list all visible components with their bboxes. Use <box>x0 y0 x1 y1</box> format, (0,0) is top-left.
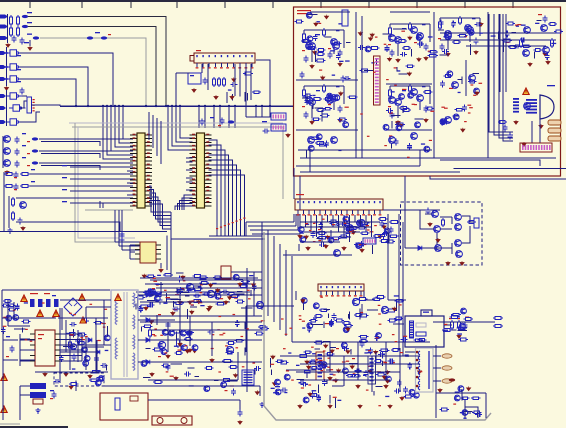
capacitor C4 <box>15 137 20 144</box>
capacitor C5 <box>15 149 20 156</box>
value label <box>81 337 84 338</box>
value label <box>271 388 275 389</box>
value label <box>473 95 476 96</box>
ground <box>321 76 325 80</box>
resistor R108 <box>77 333 87 336</box>
wire <box>363 291 365 298</box>
wire <box>439 18 441 22</box>
capacitor C81 <box>238 410 243 417</box>
resistor R50 <box>548 23 557 26</box>
wire <box>213 106 215 128</box>
ground <box>387 57 391 61</box>
wire <box>78 127 135 238</box>
value label <box>248 298 251 299</box>
ground <box>214 95 218 99</box>
wire <box>146 347 151 349</box>
transistor Q59 <box>455 240 462 247</box>
capacitor C45 <box>311 231 316 238</box>
transistor Q94 <box>461 308 467 314</box>
value label <box>252 363 255 364</box>
transistor Q10 <box>417 33 424 40</box>
value label <box>62 177 67 178</box>
wire <box>121 210 123 250</box>
transistor Q122 <box>383 124 389 130</box>
wire <box>420 210 434 229</box>
capacitor C17 <box>304 56 309 63</box>
capacitor C128 <box>417 41 424 46</box>
wire <box>60 333 82 335</box>
wire <box>170 212 172 239</box>
bridge rectifier D11 <box>64 298 82 316</box>
capacitor C77 <box>138 306 143 313</box>
resistor R102 <box>177 338 180 348</box>
resistor R24 <box>402 47 411 50</box>
value label <box>14 189 17 190</box>
value label <box>200 305 204 306</box>
wire <box>104 385 260 387</box>
wire <box>388 299 406 301</box>
transistor Q27 <box>327 97 334 104</box>
wire <box>2 136 4 168</box>
value label <box>273 392 276 393</box>
wire <box>402 222 404 356</box>
wire <box>349 362 357 364</box>
wire <box>60 338 82 340</box>
wire <box>160 282 162 294</box>
wire <box>375 352 377 363</box>
wire <box>186 181 193 183</box>
resistor R87 <box>205 367 214 370</box>
diode D16 <box>146 338 150 342</box>
wire <box>388 35 394 37</box>
transistor Q93 <box>381 306 388 313</box>
wire <box>439 54 448 56</box>
ground <box>528 62 532 66</box>
wire <box>185 295 189 297</box>
value label <box>305 223 308 224</box>
ground <box>190 310 194 314</box>
wire <box>246 93 248 101</box>
wire <box>60 360 82 362</box>
transistor Q44 <box>543 47 550 54</box>
wire <box>60 355 82 357</box>
wire <box>245 222 247 236</box>
value label <box>299 315 302 316</box>
wire <box>388 97 394 99</box>
wire <box>63 345 75 347</box>
wire <box>295 214 297 226</box>
wire <box>160 263 162 268</box>
value label <box>394 295 399 296</box>
wire <box>451 243 453 254</box>
capacitor C61 <box>235 320 240 327</box>
transistor Q7 <box>309 99 316 106</box>
buffer gate U2 <box>6 64 23 70</box>
wire <box>152 115 154 148</box>
capacitor C2 <box>20 38 25 45</box>
resistor R82 <box>136 296 146 299</box>
capacitor C6 <box>15 161 20 168</box>
wire <box>214 380 219 382</box>
resistor R2 <box>17 15 20 26</box>
inductor L2 <box>22 25 28 28</box>
diode D15 <box>146 318 150 322</box>
capacitor C107 <box>310 391 315 398</box>
value label <box>319 23 322 24</box>
capacitor C26 <box>474 38 479 45</box>
value label <box>371 62 374 63</box>
value label <box>401 31 405 32</box>
capacitor C13 <box>231 82 238 87</box>
capacitor C35 <box>545 53 550 60</box>
transistor Q95 <box>459 323 465 329</box>
transistor Q46 <box>298 227 304 233</box>
resistor R196 <box>316 49 325 52</box>
resistor R91 <box>153 381 163 384</box>
wire <box>402 106 404 114</box>
resistor R18 <box>316 53 325 56</box>
ground <box>416 385 419 388</box>
wire <box>60 344 111 346</box>
wire <box>130 244 135 246</box>
wire <box>373 391 375 395</box>
value label <box>309 230 312 231</box>
capacitor C85 <box>329 319 334 326</box>
wire <box>385 342 387 380</box>
wire <box>364 69 373 71</box>
wire <box>149 295 154 297</box>
value label <box>3 326 7 327</box>
value label <box>236 347 239 348</box>
value label <box>198 286 202 287</box>
wire <box>20 67 88 106</box>
value label <box>296 365 300 366</box>
wire <box>462 226 470 243</box>
wire <box>461 77 463 84</box>
value label <box>152 288 155 289</box>
resistor R139 <box>458 320 461 330</box>
value label <box>281 318 284 319</box>
wire <box>489 14 513 132</box>
value label <box>96 370 101 371</box>
value label <box>285 334 288 335</box>
capacitor C70 <box>70 322 77 327</box>
resistor R83 <box>228 366 238 369</box>
wire <box>175 329 230 331</box>
resistor R203 <box>425 107 434 110</box>
resistor R46 <box>498 121 507 124</box>
inductor L3 <box>33 36 39 39</box>
value label <box>262 121 267 122</box>
resistor R21 <box>316 109 325 112</box>
diode D17 <box>146 360 150 364</box>
value label <box>428 36 433 37</box>
resistor R69 <box>199 282 209 285</box>
wire junction <box>179 105 181 107</box>
wire <box>512 1 514 8</box>
capacitor C93 <box>407 362 412 369</box>
value label <box>516 26 519 27</box>
ground <box>227 295 231 299</box>
resistor R1 <box>10 15 13 26</box>
ground <box>336 368 340 372</box>
capacitor C49 <box>382 231 389 236</box>
wire <box>70 166 133 168</box>
wire <box>209 165 237 236</box>
resistor R58 <box>373 235 383 238</box>
wire <box>452 329 456 331</box>
transistor Q112 <box>300 237 306 243</box>
wire <box>531 121 533 143</box>
wire <box>433 380 441 382</box>
wire <box>317 385 319 393</box>
wire <box>405 351 416 353</box>
resistor R3 <box>10 26 13 37</box>
value label <box>403 336 407 337</box>
resistor R22 <box>389 26 392 36</box>
value label <box>334 239 337 240</box>
transistor Q36 <box>445 33 452 40</box>
wire <box>231 271 262 273</box>
ground <box>474 50 478 54</box>
wire <box>186 157 193 159</box>
connector CN13 <box>474 218 479 228</box>
connector CN18 <box>368 356 376 384</box>
ground <box>368 36 372 40</box>
value label <box>352 229 355 230</box>
transistor Q110 <box>321 362 327 368</box>
wire <box>118 210 120 246</box>
resistor R75 <box>193 275 203 278</box>
wire <box>464 1 466 8</box>
resistor R160 <box>314 341 324 344</box>
value label <box>316 90 320 91</box>
ground <box>233 373 237 377</box>
wire <box>286 369 316 371</box>
wire <box>58 317 108 319</box>
resistor R45 <box>315 142 325 145</box>
ground <box>338 62 342 66</box>
wire <box>239 400 241 410</box>
value label <box>328 48 331 49</box>
capacitor C67 <box>1 327 6 334</box>
resistor R163 <box>461 397 470 400</box>
value label <box>384 362 387 363</box>
wire <box>167 322 169 352</box>
resistor R72 <box>241 280 250 283</box>
connector CN11 <box>295 199 383 216</box>
wire <box>35 371 108 373</box>
capacitor C38 <box>407 143 412 150</box>
wire <box>1 290 3 330</box>
capacitor C21 <box>390 50 395 57</box>
resistor R63 <box>386 240 395 243</box>
resistor R29 <box>459 16 462 25</box>
value label <box>333 374 336 375</box>
ground <box>188 300 192 304</box>
wire <box>361 16 363 158</box>
wire <box>184 195 193 210</box>
capacitor C123 <box>340 76 345 83</box>
transistor Q99 <box>413 392 419 398</box>
capacitor C10 <box>120 232 125 239</box>
value label <box>330 374 334 375</box>
resistor R88 <box>258 325 267 328</box>
ground <box>305 360 309 364</box>
ground <box>392 307 396 311</box>
wire <box>237 291 243 293</box>
wire <box>228 106 230 128</box>
value label <box>453 404 456 405</box>
wire <box>326 380 328 384</box>
wire <box>390 85 430 87</box>
capacitor C25 <box>440 44 445 51</box>
ground <box>446 261 450 265</box>
wire <box>393 323 404 325</box>
transistor Q35 <box>411 133 418 140</box>
capacitor C30 <box>442 120 449 125</box>
resistor R173 <box>374 360 383 363</box>
value label <box>383 362 386 363</box>
transistor Q86 <box>95 380 101 386</box>
value label <box>405 354 409 355</box>
wire <box>176 72 190 74</box>
capacitor C130 <box>451 21 456 28</box>
value label <box>38 338 42 339</box>
wire <box>239 64 241 96</box>
wire <box>60 351 96 353</box>
wire <box>7 14 9 43</box>
wire <box>8 325 30 327</box>
value label <box>163 303 167 304</box>
wire <box>6 47 8 86</box>
transistor Q17 <box>447 71 453 77</box>
ground <box>368 369 372 373</box>
value label <box>392 362 395 363</box>
resistor R155 <box>403 395 412 398</box>
resistor R17 <box>323 28 326 37</box>
transistor Q105 <box>458 386 464 392</box>
wire <box>310 11 350 13</box>
value label <box>405 356 409 357</box>
IC U14 <box>421 310 432 316</box>
transistor Q81 <box>83 360 89 366</box>
wire <box>396 300 398 311</box>
value label <box>33 102 35 103</box>
value label <box>154 335 157 336</box>
ground <box>197 299 201 303</box>
transistor Q50 <box>356 243 362 249</box>
sub-board outline BOX1 <box>294 7 561 176</box>
wire <box>20 349 35 351</box>
value label <box>289 328 292 329</box>
value label <box>471 84 474 85</box>
value label <box>275 386 280 387</box>
wire <box>0 423 20 425</box>
resistor R132 <box>387 319 397 322</box>
wire <box>16 197 133 199</box>
capacitor C89 <box>463 323 468 330</box>
wire <box>246 305 294 307</box>
transformer T3 <box>416 348 434 392</box>
warning symbol <box>79 294 85 301</box>
inductor L12 <box>442 379 452 383</box>
buffer gate U5 <box>9 105 26 111</box>
capacitor C72 <box>94 356 99 363</box>
resistor R76 <box>146 275 156 278</box>
wire <box>339 236 351 238</box>
wire junction <box>5 52 7 54</box>
wire <box>503 14 513 141</box>
value label <box>430 111 434 112</box>
value label <box>27 12 32 13</box>
posistor RT1 <box>100 393 148 420</box>
value label <box>31 169 35 170</box>
transistor Q4 <box>20 202 27 209</box>
wire <box>226 92 228 103</box>
wire <box>20 360 30 362</box>
resistor R129 <box>335 319 345 322</box>
wire <box>96 340 98 370</box>
value label <box>27 34 32 35</box>
capacitor C79 <box>148 303 155 308</box>
wire <box>172 106 193 146</box>
value label <box>423 312 429 313</box>
value label <box>521 25 526 26</box>
resistor R23 <box>409 22 412 31</box>
value label <box>316 359 319 360</box>
wire junction <box>261 105 263 107</box>
value label <box>359 244 362 245</box>
value label <box>302 327 305 328</box>
resistor R56 <box>345 228 355 231</box>
transistor Q78 <box>13 315 19 321</box>
ground <box>310 64 314 68</box>
wire <box>129 245 131 259</box>
wire <box>259 386 261 396</box>
transistor Q79 <box>6 315 12 321</box>
value label <box>384 44 387 45</box>
value label <box>420 371 423 372</box>
ground <box>255 390 259 394</box>
warning symbol <box>53 310 59 317</box>
wire <box>186 189 193 191</box>
transistor Q102 <box>376 333 382 339</box>
value label <box>378 305 381 306</box>
wire junction <box>122 105 124 107</box>
ground <box>417 369 421 373</box>
wire <box>271 369 273 375</box>
wire <box>303 30 305 34</box>
transistor Q26 <box>306 97 313 104</box>
ground <box>514 120 518 124</box>
wire <box>386 129 432 131</box>
wire <box>465 60 467 96</box>
value label <box>337 400 341 401</box>
resistor R79 <box>192 300 202 303</box>
wire <box>397 106 399 118</box>
capacitor C58 <box>184 372 191 377</box>
wire <box>227 380 237 382</box>
wire <box>28 27 156 107</box>
value label <box>50 398 53 399</box>
wire <box>316 215 318 237</box>
wire <box>398 214 400 350</box>
wire <box>238 278 243 280</box>
resistor R117 <box>95 378 105 381</box>
value label <box>30 341 33 342</box>
resistor R60 <box>357 226 367 229</box>
